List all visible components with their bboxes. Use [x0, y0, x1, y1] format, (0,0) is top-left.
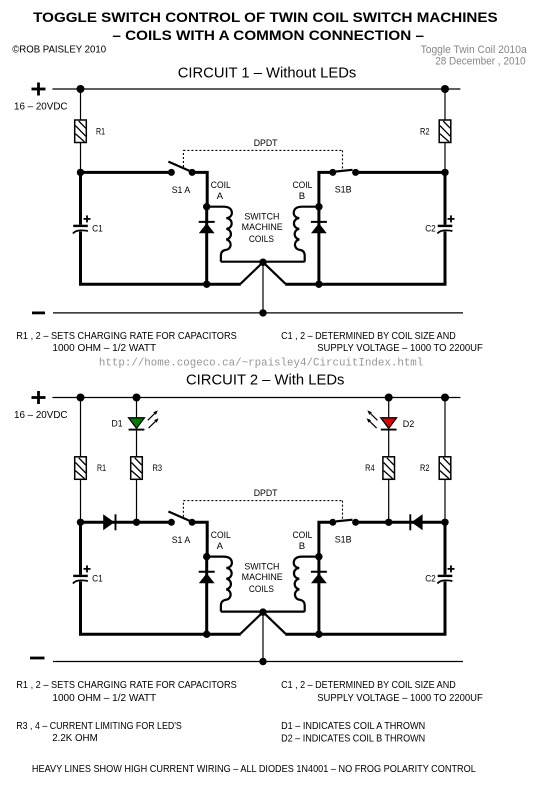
- inductor coil B circuit 2: [294, 557, 319, 612]
- node common rail junction: [259, 309, 266, 316]
- wire heavy S1A to coil A: [192, 172, 207, 206]
- wire LED D2 to R4: [388, 430, 390, 456]
- wire heavy C1 to bottom circuit 2: [81, 582, 241, 635]
- wire heavy C2 branch circuit 2: [444, 522, 447, 574]
- svg-text:R2: R2: [420, 126, 430, 137]
- wire common down: [262, 262, 264, 313]
- svg-text:R4: R4: [365, 463, 375, 474]
- wire R1 to junction: [80, 143, 82, 173]
- node R1 bottom junction: [77, 169, 84, 176]
- svg-text:C1: C1: [92, 574, 103, 585]
- node coil B bottom: [315, 281, 322, 288]
- wire heavy coil B vertical: [317, 207, 320, 285]
- svg-text:– COILS WITH A COMMON CONNECTI: – COILS WITH A COMMON CONNECTION –: [112, 27, 424, 43]
- wire minus rail circuit 1: [53, 312, 463, 314]
- svg-text:C1: C1: [92, 224, 103, 235]
- diode across coil A: [199, 222, 215, 233]
- svg-text:S1B: S1B: [335, 535, 352, 546]
- wire heavy C2 to bottom corner: [285, 232, 445, 285]
- svg-text:HEAVY LINES SHOW HIGH CURRENT: HEAVY LINES SHOW HIGH CURRENT WIRING – A…: [32, 764, 476, 775]
- wire frog diagonal right: [263, 262, 286, 284]
- svg-text:R3 , 4 – CURRENT LIMITING FOR: R3 , 4 – CURRENT LIMITING FOR LED'S: [16, 721, 182, 732]
- wire heavy C2 to bottom circuit 2: [285, 582, 445, 635]
- wire LED D1 to R3: [136, 430, 138, 456]
- wire R1 to row circuit 2: [80, 479, 82, 522]
- svg-text:TOGGLE SWITCH CONTROL OF TWIN: TOGGLE SWITCH CONTROL OF TWIN COIL SWITC…: [33, 9, 498, 25]
- wire heavy S1B to coil B: [319, 172, 333, 206]
- node row junction R3: [133, 519, 140, 526]
- minus terminal circuit 1: [32, 311, 45, 314]
- svg-text:C1 , 2 – DETERMINED BY COIL SI: C1 , 2 – DETERMINED BY COIL SIZE AND: [281, 331, 456, 342]
- resistor R1 circuit 2: [75, 457, 87, 480]
- node coil A top junction: [203, 203, 210, 210]
- svg-text:R2: R2: [420, 463, 430, 474]
- wire rail to R2: [444, 89, 446, 120]
- wire R2 to junction: [444, 143, 446, 173]
- wire heavy C1 branch left: [79, 172, 82, 224]
- node rail junction D1: [133, 394, 141, 402]
- wire top rail circuit 1: [52, 88, 460, 90]
- wire rail to LED D2: [388, 398, 390, 418]
- svg-text:D2: D2: [403, 419, 415, 430]
- node R2 bottom junction: [441, 169, 448, 176]
- wire heavy coil A vertical: [205, 207, 208, 285]
- switch S1A circuit 2: [168, 512, 196, 526]
- wire heavy S1B to coil B circuit 2: [319, 522, 333, 556]
- svg-text:C1 , 2 – DETERMINED BY COIL SI: C1 , 2 – DETERMINED BY COIL SIZE AND: [281, 680, 456, 691]
- svg-text:DPDT: DPDT: [254, 138, 278, 149]
- svg-text:2.2K OHM: 2.2K OHM: [52, 733, 97, 744]
- node top-right junction: [441, 85, 449, 93]
- svg-text:S1B: S1B: [335, 185, 352, 196]
- wire heavy coil B vertical circuit 2: [317, 557, 320, 635]
- wire common bar of coils: [221, 261, 305, 263]
- svg-text:COIL: COIL: [293, 530, 313, 541]
- svg-text:Toggle Twin Coil 2010a: Toggle Twin Coil 2010a: [421, 44, 528, 56]
- diode series right: [410, 514, 422, 530]
- DPDT dashed tie line: [183, 149, 342, 151]
- wire heavy C2 branch right: [444, 172, 447, 224]
- svg-text:C2: C2: [425, 224, 436, 235]
- svg-text:COILS: COILS: [249, 234, 274, 245]
- inductor coil A circuit 2: [207, 557, 232, 612]
- wire frog diagonal left circuit 2: [241, 612, 264, 634]
- switch S1B circuit 2: [329, 519, 359, 526]
- node rail junction R1: [77, 394, 85, 402]
- wire heavy S1B to junction: [356, 171, 445, 174]
- wire R3 to row: [136, 479, 138, 522]
- wire rail to R1: [80, 89, 82, 120]
- svg-text:B: B: [299, 541, 305, 552]
- svg-text:CIRCUIT 1 – Without LEDs: CIRCUIT 1 – Without LEDs: [178, 64, 357, 81]
- wire heavy C1 to bottom corner: [81, 232, 241, 285]
- node rail junction R2: [441, 394, 449, 402]
- LED D2: [381, 418, 397, 430]
- node rail junction D2: [385, 394, 393, 402]
- wire heavy coil A vertical circuit 2: [205, 557, 208, 635]
- wire heavy C1 branch circuit 2: [79, 522, 82, 574]
- svg-text:MACHINE: MACHINE: [242, 572, 283, 583]
- capacitor C1 circuit 2: [73, 576, 88, 584]
- svg-text:SUPPLY VOLTAGE – 1000 TO 2200U: SUPPLY VOLTAGE – 1000 TO 2200UF: [317, 343, 483, 354]
- switch S1A: [168, 162, 196, 176]
- LED D1: [129, 418, 145, 430]
- svg-text:1000 OHM – 1/2 WATT: 1000 OHM – 1/2 WATT: [52, 693, 156, 704]
- node common center: [259, 259, 266, 266]
- capacitor C2 circuit 2: [437, 576, 452, 584]
- minus terminal circuit 2: [30, 657, 45, 660]
- svg-text:R1: R1: [96, 126, 105, 137]
- node coil A bottom circuit 2: [203, 631, 210, 638]
- node coil A top circuit 2: [203, 553, 210, 560]
- svg-text:S1 A: S1 A: [172, 185, 191, 196]
- svg-text:COIL: COIL: [293, 180, 313, 191]
- svg-text:R1 , 2 – SETS CHARGING RATE F: R1 , 2 – SETS CHARGING RATE FOR CAPACITO…: [16, 331, 237, 342]
- wire heavy row left circuit 2: [81, 521, 172, 524]
- diode across coil B: [311, 222, 327, 233]
- node coil B top circuit 2: [315, 553, 322, 560]
- svg-text:SWITCH: SWITCH: [244, 211, 279, 222]
- svg-text:B: B: [299, 191, 305, 202]
- dotted link S1A to DPDT circuit 2: [182, 501, 184, 517]
- wire common down circuit 2: [262, 612, 264, 661]
- svg-text:28 December , 2010: 28 December , 2010: [435, 55, 525, 67]
- resistor R2 circuit 2: [439, 457, 451, 480]
- svg-text:A: A: [217, 191, 224, 202]
- svg-text:R1 , 2 – SETS CHARGING RATE F: R1 , 2 – SETS CHARGING RATE FOR CAPACITO…: [16, 680, 237, 691]
- svg-text:D1: D1: [112, 419, 123, 430]
- svg-text:16 – 20VDC: 16 – 20VDC: [14, 410, 68, 421]
- capacitor C2: [437, 226, 452, 234]
- wire rail to R1 circuit 2: [80, 398, 82, 457]
- node row junction R1 circuit 2: [77, 519, 84, 526]
- svg-text:DPDT: DPDT: [254, 488, 278, 499]
- wire heavy S1A to coil A circuit 2: [192, 522, 207, 556]
- svg-text:CIRCUIT 2 – With LEDs: CIRCUIT 2 – With LEDs: [186, 371, 344, 388]
- node row junction R2 circuit 2: [441, 519, 448, 526]
- wire rail to LED D1: [136, 398, 138, 418]
- diode across coil B circuit 2: [311, 572, 327, 583]
- wire rail to R2 circuit 2: [444, 398, 446, 457]
- svg-text:A: A: [217, 541, 224, 552]
- svg-text:S1 A: S1 A: [172, 535, 191, 546]
- svg-text:MACHINE: MACHINE: [242, 222, 283, 233]
- svg-text:©ROB PAISLEY 2010: ©ROB PAISLEY 2010: [12, 45, 106, 56]
- node row junction R4: [385, 519, 392, 526]
- resistor R1: [75, 120, 87, 143]
- wire frog diagonal right circuit 2: [263, 612, 286, 634]
- inductor coil B: [294, 207, 319, 262]
- wire frog diagonal left: [241, 262, 264, 284]
- switch S1B: [329, 169, 359, 176]
- svg-text:16 – 20VDC: 16 – 20VDC: [14, 101, 68, 112]
- node coil A bottom: [203, 281, 210, 288]
- wire heavy row right circuit 2: [356, 521, 445, 524]
- inductor coil A: [207, 207, 232, 262]
- svg-text:D1 – INDICATES COIL A THROWN: D1 – INDICATES COIL A THROWN: [281, 721, 425, 732]
- svg-text:COIL: COIL: [211, 180, 231, 191]
- svg-text:1000 OHM – 1/2 WATT: 1000 OHM – 1/2 WATT: [52, 343, 156, 354]
- capacitor C1: [73, 226, 88, 234]
- wire common bar of coils circuit 2: [221, 610, 305, 612]
- diode across coil A circuit 2: [199, 572, 215, 583]
- wire R4 to row: [388, 479, 390, 522]
- svg-text:R3: R3: [153, 463, 163, 474]
- dotted link S1A to DPDT: [182, 150, 184, 167]
- LED D1 arrows: [148, 410, 158, 420]
- plus terminal circuit 1: [32, 83, 46, 96]
- svg-text:D2 – INDICATES COIL B THROWN: D2 – INDICATES COIL B THROWN: [281, 733, 425, 744]
- diode series left: [103, 514, 115, 530]
- node common rail junction circuit 2: [259, 658, 266, 665]
- wire minus rail circuit 2: [53, 661, 463, 663]
- DPDT dashed tie line circuit 2: [183, 500, 342, 502]
- plus terminal circuit 2: [32, 391, 46, 404]
- LED D2 arrows: [367, 410, 377, 420]
- svg-text:SUPPLY VOLTAGE – 1000 TO 2200U: SUPPLY VOLTAGE – 1000 TO 2200UF: [317, 693, 483, 704]
- wire R2 to row circuit 2: [444, 479, 446, 522]
- svg-text:R1: R1: [97, 463, 106, 474]
- node common center circuit 2: [259, 608, 266, 615]
- node top-left junction: [77, 85, 85, 93]
- svg-text:COILS: COILS: [249, 584, 274, 595]
- svg-text:SWITCH: SWITCH: [244, 561, 279, 572]
- wire heavy junction to S1A: [81, 171, 172, 174]
- svg-text:C2: C2: [425, 574, 436, 585]
- node coil B bottom circuit 2: [315, 631, 322, 638]
- resistor R4: [383, 457, 395, 480]
- svg-text:http://home.cogeco.ca/~rpaisle: http://home.cogeco.ca/~rpaisley4/Circuit…: [99, 358, 423, 370]
- resistor R2: [439, 120, 451, 143]
- wire top rail circuit 2: [52, 397, 460, 399]
- svg-text:COIL: COIL: [211, 530, 231, 541]
- node coil B top junction: [315, 203, 322, 210]
- resistor R3: [131, 457, 143, 480]
